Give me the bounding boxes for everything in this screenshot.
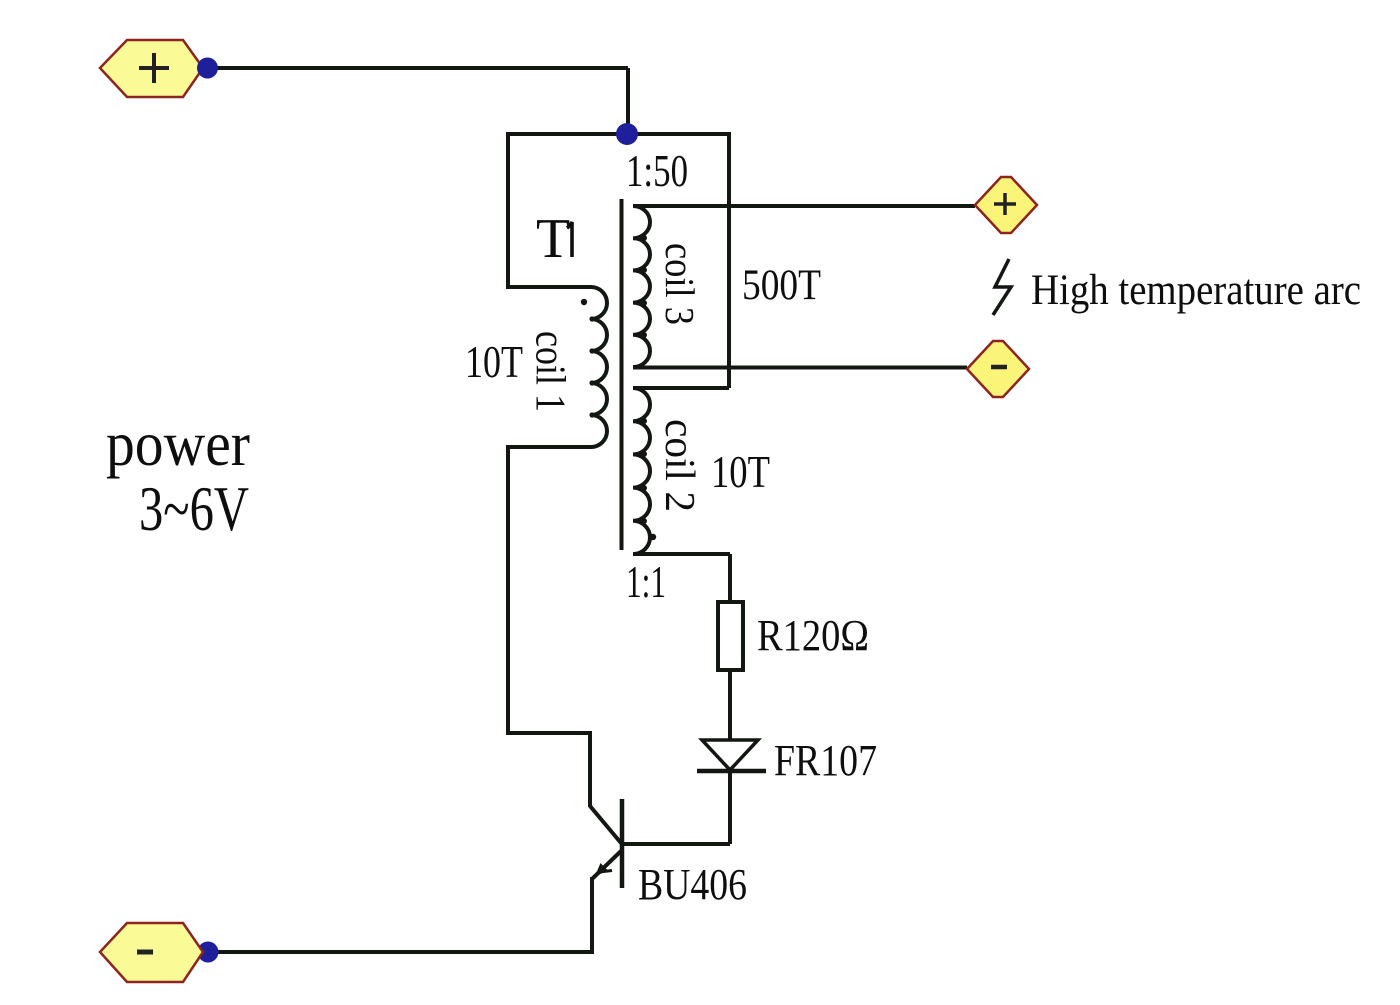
coil 1 winding (10T primary) — [591, 287, 607, 447]
terminal OUT+ (diamond) — [975, 177, 1037, 233]
svg-text:10T: 10T — [711, 447, 770, 497]
transistor BU406 — [590, 799, 622, 888]
wire top rail of T1 — [508, 132, 729, 136]
transformer T1 — [465, 132, 821, 607]
wire emitter to PWR- rail — [218, 877, 592, 952]
wire left edge of T1 primary loop — [506, 132, 510, 287]
svg-text:High temperature arc: High temperature arc — [1031, 267, 1361, 314]
collector stroke — [590, 806, 621, 843]
emitter stroke — [592, 851, 621, 879]
wire right edge of T1 box — [727, 132, 731, 388]
svg-text:10T: 10T — [465, 337, 523, 387]
svg-text:power: power — [106, 409, 250, 479]
wire coil2 bottom lead — [633, 552, 730, 556]
terminal OUT- (diamond) — [967, 341, 1029, 397]
svg-text:3~6V: 3~6V — [139, 474, 249, 544]
wire coil2 top lead — [633, 386, 729, 390]
wire down to junction — [626, 68, 630, 134]
coil 2 phase dot — [650, 534, 656, 540]
wire coil3 bottom to output - — [633, 366, 967, 370]
wire coil3 top to output + — [633, 204, 975, 208]
wire PWR+ to top rail (horizontal) — [207, 66, 628, 70]
terminal PWR- (input negative, hexagon) — [100, 923, 203, 982]
coil 3 winding (500T secondary) — [633, 206, 650, 367]
wire coil1 bottom to collector (left drop) — [508, 445, 590, 807]
junction node on transformer top rail — [616, 123, 638, 145]
svg-text:R120Ω: R120Ω — [757, 611, 869, 660]
svg-text:1:50: 1:50 — [626, 145, 688, 196]
diode FR107 — [697, 740, 766, 771]
node dot at PWR+ terminal — [197, 58, 218, 79]
node dot at PWR- terminal — [198, 942, 219, 963]
coil 2 winding (10T feedback) — [633, 388, 650, 554]
coil 1 phase dot — [581, 299, 587, 305]
transformer core — [620, 199, 624, 550]
coil 2 cusp nubs — [641, 418, 647, 524]
wire base rail to transistor — [622, 842, 730, 846]
svg-text:coil 2: coil 2 — [656, 419, 702, 512]
emitter arrow tick — [599, 871, 612, 873]
svg-text:FR107: FR107 — [774, 736, 877, 785]
wire coil1 top lead — [506, 285, 592, 289]
wire coil1 bottom lead — [506, 445, 592, 449]
emitter arrowhead — [595, 863, 608, 876]
terminal PWR+ (input positive, hexagon) — [100, 40, 203, 97]
svg-text:coil 1: coil 1 — [527, 331, 573, 412]
wire resistor to diode — [728, 670, 732, 740]
resistor R 120ohm — [718, 602, 743, 670]
svg-text:1:1: 1:1 — [626, 557, 666, 607]
wire coil2 bottom to resistor — [728, 554, 732, 602]
spark symbol (lightning bolt) — [993, 259, 1011, 315]
coil 3 cusp nubs — [641, 235, 647, 338]
svg-text:500T: 500T — [742, 262, 821, 309]
wire diode to base rail — [728, 771, 732, 844]
svg-text:T: T — [536, 208, 570, 270]
coil 1 cusp nubs — [589, 316, 594, 417]
svg-text:coil 3: coil 3 — [657, 243, 703, 325]
svg-text:BU406: BU406 — [638, 860, 747, 909]
base bar — [620, 799, 625, 888]
